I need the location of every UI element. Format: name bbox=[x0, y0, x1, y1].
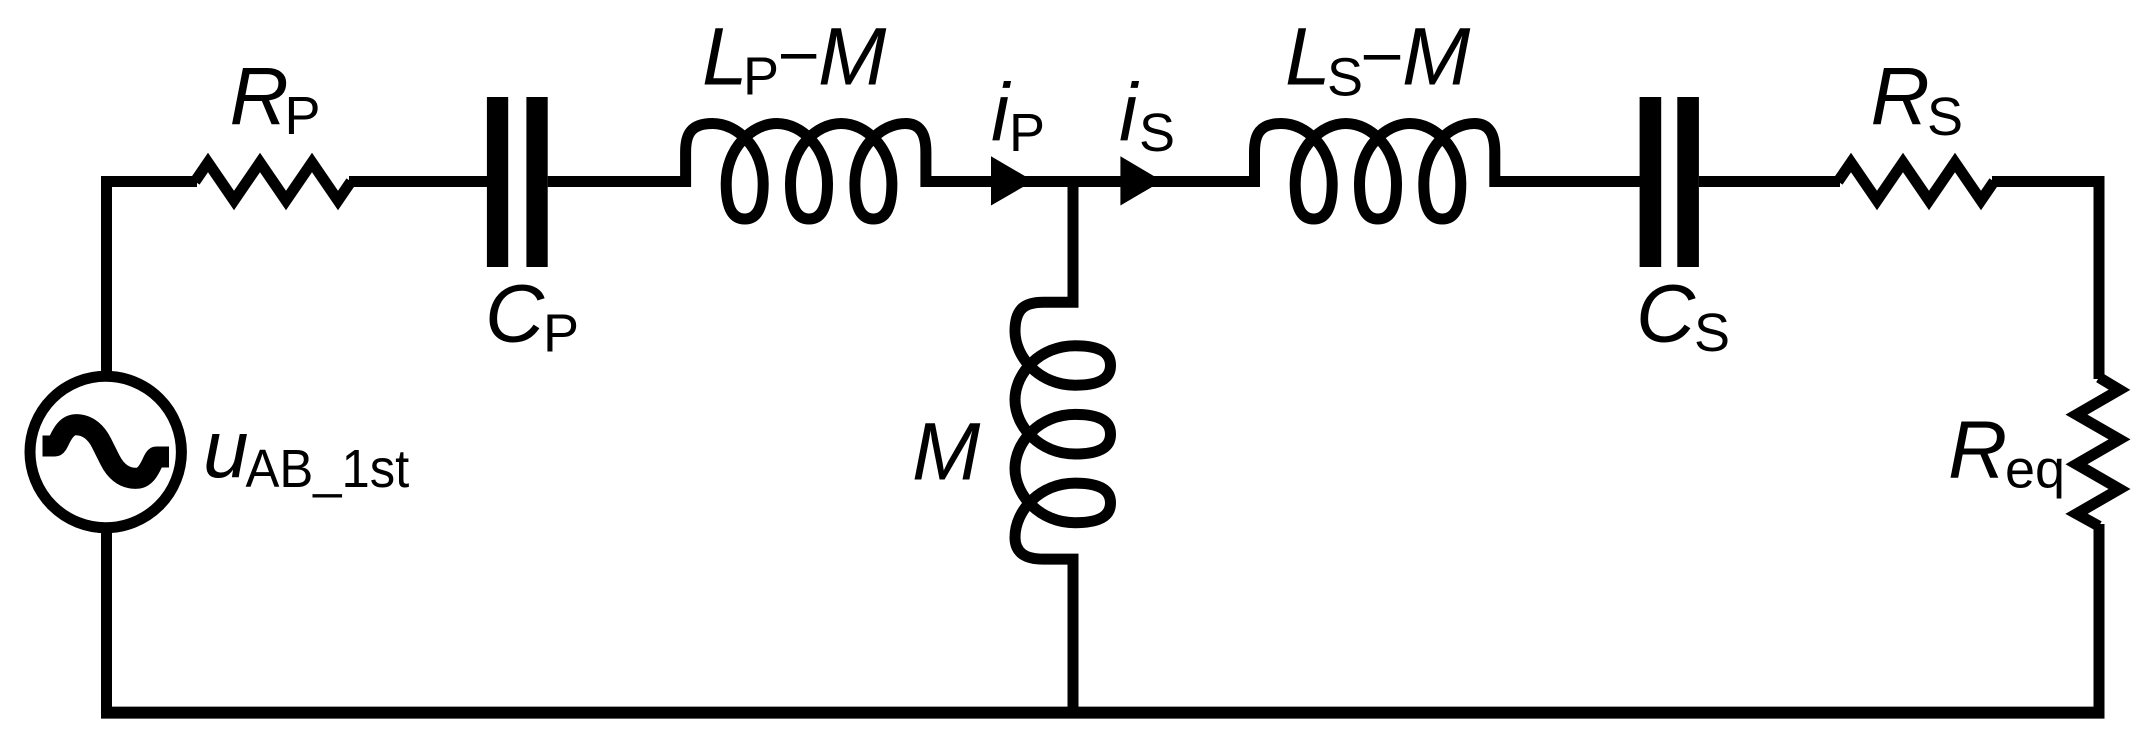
inductor LS-M bbox=[1255, 124, 1495, 220]
svg-text:L: L bbox=[702, 11, 748, 102]
svg-text:u: u bbox=[203, 404, 249, 495]
svg-text:P: P bbox=[543, 303, 579, 363]
inductor M bbox=[1015, 302, 1111, 559]
node junction bbox=[1073, 176, 1256, 187]
wire RP to CP bbox=[349, 176, 487, 187]
wire LP to node bbox=[924, 176, 1073, 187]
svg-text:R: R bbox=[1871, 52, 1930, 143]
svg-text:AB_1st: AB_1st bbox=[246, 439, 410, 499]
wire RS to right corner bbox=[1992, 176, 2099, 379]
svg-text:L: L bbox=[1285, 11, 1331, 102]
svg-text:M: M bbox=[1402, 11, 1471, 102]
source sine symbol bbox=[43, 425, 170, 479]
wire LS to CS bbox=[1494, 176, 1640, 187]
svg-text:P: P bbox=[743, 46, 779, 106]
svg-text:S: S bbox=[1927, 87, 1963, 147]
inductor LP-M bbox=[686, 124, 926, 220]
svg-text:C: C bbox=[485, 268, 545, 359]
arrow iP bbox=[991, 156, 1033, 205]
label iP bbox=[991, 68, 1045, 164]
svg-text:S: S bbox=[1694, 303, 1730, 363]
wire node vertical upper bbox=[1068, 182, 1079, 304]
label RP bbox=[230, 52, 321, 147]
label iS bbox=[1119, 68, 1175, 164]
label LS-M bbox=[1285, 11, 1471, 107]
arrow iS bbox=[1120, 156, 1162, 205]
resistor RS bbox=[1838, 163, 1994, 201]
label Req bbox=[1948, 405, 2065, 500]
svg-text:R: R bbox=[230, 52, 289, 143]
svg-text:P: P bbox=[1009, 103, 1045, 163]
source uAB circle bbox=[30, 376, 181, 527]
svg-text:S: S bbox=[1327, 48, 1363, 108]
wire M to bottom bbox=[1068, 558, 1079, 713]
wire top-left horizontal bbox=[101, 176, 197, 187]
label CS bbox=[1636, 269, 1730, 363]
resistor Req bbox=[2077, 377, 2120, 526]
wire left vertical lower bbox=[101, 527, 112, 713]
capacitor CS bbox=[1640, 97, 1699, 267]
svg-text:R: R bbox=[1948, 405, 2007, 496]
wire CP to LP bbox=[548, 176, 687, 187]
wire left vertical upper bbox=[101, 176, 112, 378]
svg-text:i: i bbox=[1119, 68, 1140, 159]
label uAB_1st bbox=[203, 404, 409, 499]
svg-text:S: S bbox=[1139, 103, 1175, 163]
svg-text:M: M bbox=[912, 407, 981, 498]
wire bottom horizontal bbox=[101, 707, 2105, 719]
wire CS to RS bbox=[1699, 176, 1840, 187]
label M bbox=[912, 407, 981, 498]
resistor RP bbox=[195, 163, 351, 201]
svg-text:eq: eq bbox=[2005, 440, 2065, 500]
wire right vertical lower bbox=[2094, 524, 2105, 718]
svg-text:M: M bbox=[818, 11, 887, 102]
svg-text:C: C bbox=[1636, 269, 1696, 360]
label RS bbox=[1871, 52, 1964, 148]
svg-text:P: P bbox=[285, 86, 321, 146]
label CP bbox=[485, 268, 579, 363]
label LP-M bbox=[702, 11, 887, 106]
capacitor CP bbox=[487, 97, 548, 267]
